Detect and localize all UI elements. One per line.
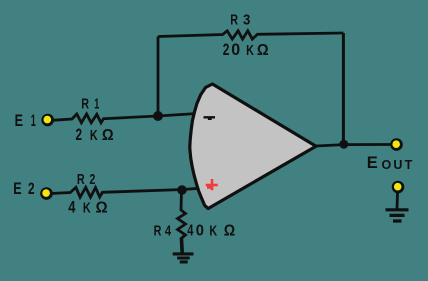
wire output <box>316 145 391 147</box>
svg-text:R: R <box>230 11 238 28</box>
junction node at minus input <box>153 111 163 121</box>
terminal E out <box>390 138 403 151</box>
svg-text:4: 4 <box>165 222 172 239</box>
resistor R1 label <box>81 95 89 112</box>
svg-text:1: 1 <box>31 111 36 130</box>
svg-text:E: E <box>15 113 24 131</box>
svg-text:Ω: Ω <box>96 199 108 216</box>
resistor R2 label <box>77 170 85 187</box>
ground below R4 <box>173 254 194 262</box>
svg-text:4: 4 <box>68 199 76 217</box>
svg-text:2: 2 <box>89 170 95 187</box>
svg-text:R: R <box>77 170 85 187</box>
svg-text:Ω: Ω <box>257 41 269 59</box>
resistor R3 label <box>230 11 238 28</box>
op-amp plus input sign <box>206 179 218 190</box>
node E2 label <box>13 181 22 199</box>
svg-text:4: 4 <box>187 222 194 239</box>
wire E1 input with resistor R1 zigzag <box>53 114 198 123</box>
junction node at plus input <box>177 185 187 195</box>
svg-text:3: 3 <box>243 11 250 28</box>
wire feedback top with resistor R3 zigzag <box>158 31 343 39</box>
svg-text:K: K <box>246 41 254 58</box>
ground below output terminal <box>386 210 409 221</box>
svg-text:2: 2 <box>223 41 230 59</box>
terminal E1 <box>41 114 54 127</box>
wire feedback vertical left <box>157 37 160 118</box>
junction node output/feedback <box>339 140 348 149</box>
wire terminal to ground <box>396 193 399 209</box>
node E1 label <box>15 113 24 131</box>
svg-text:OUT: OUT <box>382 158 415 172</box>
svg-text:2: 2 <box>28 180 35 198</box>
value label 4 K ohm <box>68 199 76 217</box>
svg-text:E: E <box>13 181 22 199</box>
svg-text:R: R <box>81 95 89 112</box>
value label 2 K ohm <box>76 126 83 144</box>
resistor R4 label <box>154 222 162 239</box>
svg-text:K: K <box>209 222 217 239</box>
svg-text:K: K <box>90 126 98 143</box>
svg-text:E: E <box>367 154 378 172</box>
svg-text:0: 0 <box>196 222 204 239</box>
wire E2 input with resistor R2 zigzag <box>51 187 199 197</box>
svg-text:2: 2 <box>76 126 83 144</box>
value label 20 K ohm <box>223 41 230 59</box>
terminal E2 <box>40 187 53 200</box>
value label 40 K ohm <box>187 222 194 239</box>
svg-text:R: R <box>154 222 162 239</box>
node E OUT label <box>367 154 378 172</box>
op-amp minus input sign <box>204 117 216 119</box>
svg-text:1: 1 <box>94 95 99 112</box>
svg-text:Ω: Ω <box>224 223 235 240</box>
wire feedback vertical right <box>342 33 345 145</box>
wire R4 to ground <box>180 238 184 253</box>
terminal ground reference <box>392 181 405 194</box>
svg-text:Ω: Ω <box>102 126 114 144</box>
svg-text:K: K <box>83 199 91 216</box>
wire R4 vertical with resistor R4 zigzag <box>178 190 186 239</box>
op-amp U1 body <box>190 84 316 209</box>
svg-text:0: 0 <box>231 41 240 59</box>
